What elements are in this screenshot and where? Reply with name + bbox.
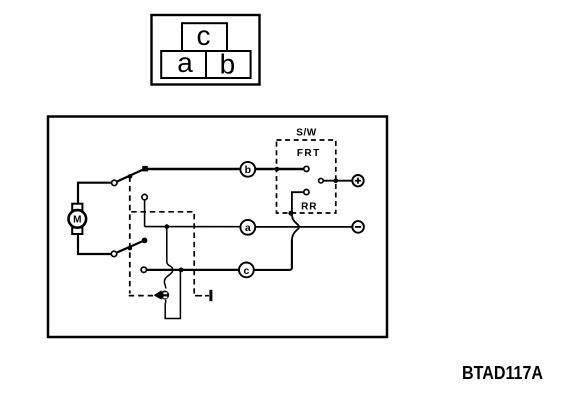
cam follower arrow — [154, 290, 162, 300]
terminal b — [240, 162, 255, 177]
svg-text:S/W: S/W — [296, 128, 316, 139]
wire b (left segment) — [145, 168, 240, 171]
wire b (right segment to FRT contact) — [255, 168, 304, 171]
switch arm lower — [117, 238, 148, 253]
wire park contact down to a wire — [144, 200, 146, 227]
pin a box — [161, 47, 206, 78]
svg-text:RR: RR — [301, 202, 317, 213]
svg-text:b: b — [220, 48, 236, 79]
svg-text:FRT: FRT — [297, 148, 321, 159]
terminal a — [240, 220, 255, 235]
svg-text:a: a — [177, 47, 193, 78]
junction a wire / park arm — [165, 224, 170, 229]
switch arm upper — [117, 166, 148, 182]
S/W switch dashed box — [277, 140, 336, 213]
junction b wire / S-W box edge — [275, 167, 280, 172]
contact park switch upper — [142, 194, 147, 199]
contact RR — [304, 190, 309, 195]
terminal c — [239, 263, 254, 278]
svg-text:c: c — [243, 265, 249, 277]
park switch dashed box — [131, 212, 194, 294]
terminal plus — [352, 175, 363, 186]
dashed lead to cam stop — [195, 295, 209, 297]
svg-text:b: b — [245, 164, 251, 176]
motor M — [69, 204, 87, 234]
cam follower contact — [160, 291, 169, 300]
terminal minus — [352, 221, 364, 233]
contact park switch lower — [141, 267, 146, 272]
pin c box — [182, 20, 227, 51]
wire RR riser with crossover bump at a wire — [292, 192, 304, 241]
mechanical link dashed horizontal to cam follower — [129, 295, 153, 297]
mechanical link dashed vertical — [129, 176, 131, 293]
svg-text:c: c — [197, 20, 211, 51]
wiper motor assembly outline box — [48, 117, 387, 338]
wire motor bottom to lower switch contact — [78, 234, 111, 254]
svg-text:a: a — [245, 222, 251, 234]
svg-text:M: M — [73, 215, 81, 226]
wire c (right segment) — [254, 240, 292, 270]
contact FRT — [304, 166, 309, 171]
svg-text:BTAD117A: BTAD117A — [462, 363, 543, 383]
cam stop bar — [209, 290, 212, 301]
junction c wire / park return loop — [179, 268, 184, 273]
contact upper switch — [112, 180, 117, 185]
park return loop wire — [165, 270, 180, 319]
junction plus wire / S-W box right edge — [334, 178, 339, 183]
park arm wire from a-wire junction through cam contact — [164, 227, 173, 289]
junction RR riser / S-W box bottom edge — [288, 211, 293, 216]
wire a (left segment) — [145, 226, 241, 228]
wire a (right segment to minus terminal) — [255, 226, 352, 228]
wire c (left segment) — [147, 269, 240, 271]
contact lower switch — [111, 251, 116, 256]
pin b box — [206, 48, 251, 79]
contact plus feed — [319, 178, 324, 183]
wire plus feed — [323, 180, 352, 182]
connector pinout outer box — [152, 15, 260, 85]
wire motor top to upper switch contact — [78, 183, 112, 204]
